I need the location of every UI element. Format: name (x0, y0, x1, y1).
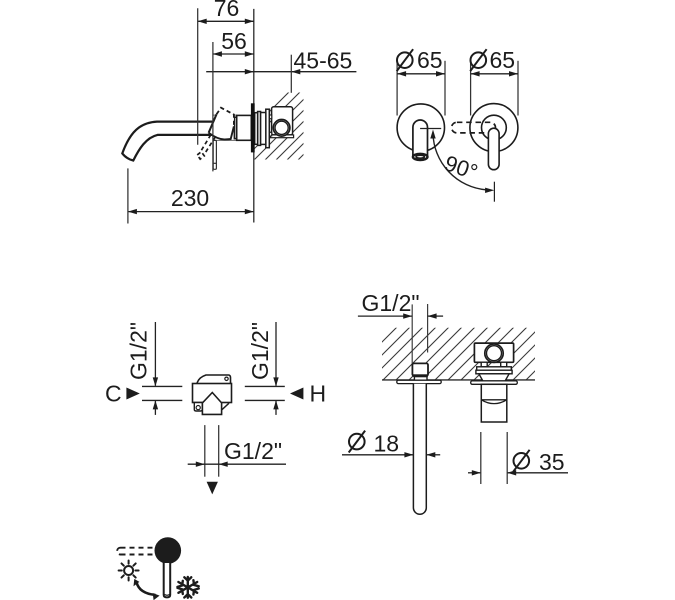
svg-text:G1/2": G1/2" (362, 290, 420, 316)
svg-text:H: H (310, 381, 327, 407)
svg-text:65: 65 (490, 47, 516, 73)
svg-text:35: 35 (539, 449, 565, 475)
svg-text:230: 230 (171, 185, 209, 211)
svg-text:45-65: 45-65 (294, 48, 353, 74)
svg-text:C: C (105, 381, 122, 407)
svg-text:18: 18 (374, 431, 400, 457)
svg-text:G1/2": G1/2" (126, 322, 152, 380)
svg-text:G1/2": G1/2" (224, 438, 282, 464)
svg-text:65: 65 (417, 47, 443, 73)
svg-text:G1/2": G1/2" (247, 322, 273, 380)
svg-text:76: 76 (214, 0, 240, 21)
svg-text:56: 56 (221, 28, 247, 54)
